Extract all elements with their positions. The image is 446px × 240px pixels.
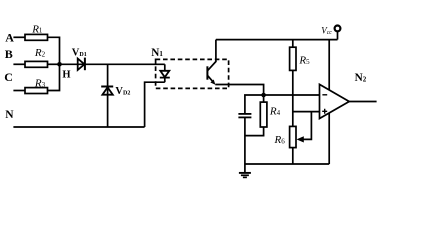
svg-text:R3: R3 — [34, 77, 46, 89]
svg-text:N: N — [5, 109, 14, 121]
svg-text:N1: N1 — [151, 47, 163, 59]
svg-text:Vcc: Vcc — [321, 25, 332, 36]
svg-text:H: H — [62, 69, 70, 80]
svg-text:R5: R5 — [298, 55, 310, 67]
svg-text:R4: R4 — [269, 106, 281, 118]
svg-text:A: A — [5, 31, 14, 45]
svg-text:VD1: VD1 — [72, 47, 87, 58]
svg-text:N2: N2 — [355, 72, 367, 84]
svg-text:C: C — [4, 70, 13, 84]
svg-text:R6: R6 — [274, 134, 286, 146]
svg-text:VD2: VD2 — [115, 86, 130, 97]
svg-text:B: B — [5, 47, 13, 61]
svg-text:R1: R1 — [31, 23, 43, 35]
svg-text:R2: R2 — [34, 47, 46, 59]
